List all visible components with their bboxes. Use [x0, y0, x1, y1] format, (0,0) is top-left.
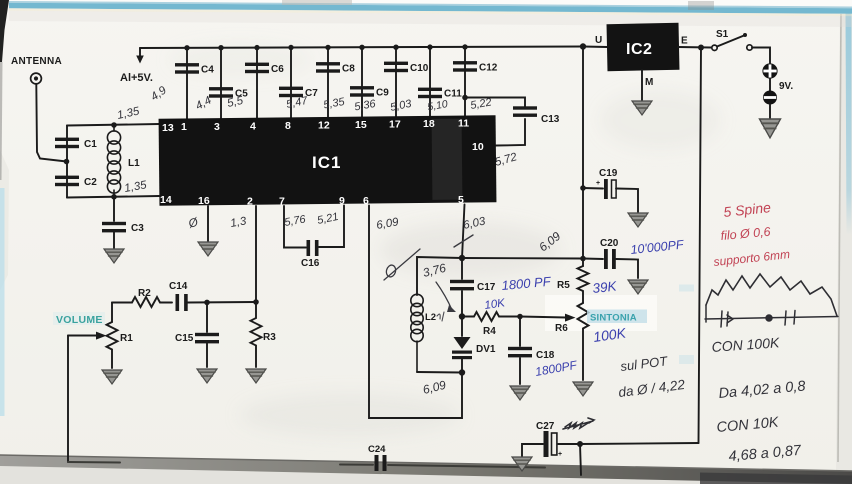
ground below C3 — [104, 249, 124, 263]
switch S1 — [712, 29, 752, 51]
node C18 branch — [517, 314, 523, 320]
svg-text:C1: C1 — [84, 139, 97, 150]
capacitor C12 — [453, 61, 498, 73]
capacitor C20 — [600, 238, 619, 269]
handwritten scribble above C27 — [563, 418, 594, 429]
ground below R3 — [246, 369, 266, 383]
svg-text:+: + — [596, 180, 600, 187]
wire top to pin 13 — [67, 124, 159, 126]
svg-text:C10: C10 — [410, 63, 429, 74]
battery negative terminal — [763, 79, 777, 105]
svg-text:39K: 39K — [592, 278, 618, 296]
svg-text:2: 2 — [247, 196, 253, 208]
handwritten phi mark left of L2 — [384, 249, 420, 280]
capacitor C8 — [316, 62, 355, 74]
svg-text:C11: C11 — [444, 89, 462, 100]
svg-text:R4: R4 — [483, 326, 496, 337]
wire pin 16 to ground — [207, 206, 209, 241]
svg-text:14: 14 — [160, 194, 172, 206]
capacitor C16 — [301, 240, 320, 269]
svg-text:ANTENNA: ANTENNA — [11, 56, 62, 67]
svg-text:C15: C15 — [175, 333, 194, 344]
wire C20 stub — [583, 259, 638, 279]
svg-text:C19: C19 — [599, 168, 618, 179]
svg-text:18: 18 — [423, 118, 435, 130]
wire bottom rail — [68, 462, 545, 468]
wire C18 branch down — [519, 317, 521, 385]
svg-text:C7: C7 — [305, 88, 318, 99]
svg-text:C18: C18 — [536, 350, 555, 361]
resistor R3 — [251, 302, 277, 367]
wire pin 7 down to C16 — [284, 206, 306, 248]
svg-text:4: 4 — [250, 121, 256, 133]
wire C27 row — [580, 443, 699, 475]
capacitor C11 — [418, 88, 462, 100]
svg-text:IC1: IC1 — [312, 153, 341, 172]
svg-text:C17: C17 — [477, 282, 496, 293]
node E branch — [698, 45, 704, 51]
wire R1 top — [111, 303, 113, 323]
svg-text:12: 12 — [318, 120, 330, 132]
audio: wire R1 top corner — [112, 302, 132, 304]
svg-text:1: 1 — [181, 121, 187, 133]
resistor R5 — [557, 266, 589, 303]
ground below IC2 M — [632, 101, 652, 115]
inductor L1 — [107, 125, 120, 197]
handwritten scribble near L2 tap — [437, 312, 444, 321]
node pin5 tank junction — [459, 255, 465, 261]
svg-text:13: 13 — [162, 122, 174, 134]
wire C15 branch — [206, 302, 208, 367]
svg-text:3: 3 — [214, 121, 220, 133]
wire bottom to pin 14 — [67, 196, 159, 198]
svg-text:DV1: DV1 — [476, 344, 496, 355]
wire IC2 M to ground — [641, 70, 643, 100]
wire rail to pin 4 — [256, 48, 258, 120]
node C20 branch — [580, 256, 586, 262]
capacitor C13 — [513, 106, 560, 125]
wire tank node to L2 top — [417, 257, 462, 295]
node L1 top — [111, 122, 117, 128]
svg-text:C3: C3 — [131, 223, 144, 234]
wire antenna to C1/C2 node — [36, 84, 66, 162]
potentiometer R6 — [555, 303, 589, 380]
capacitor C24 — [368, 444, 387, 471]
svg-text:C9: C9 — [376, 88, 389, 99]
svg-text:L2: L2 — [425, 312, 436, 323]
node L2 bottom junction — [459, 369, 465, 375]
handwritten slash on pin5 wire — [454, 235, 473, 247]
capacitor C2 — [55, 176, 97, 188]
wire volume feed down to bottom rail — [67, 336, 69, 463]
capacitor C14 — [169, 281, 188, 311]
node R4 branch — [459, 313, 465, 319]
ground below R6 — [573, 382, 593, 396]
wire R4 node to R6 wiper arrow — [520, 314, 576, 322]
svg-text:11: 11 — [458, 118, 469, 130]
capacitor C5 — [209, 87, 248, 99]
rail junction dots — [184, 44, 467, 50]
wire rail to pin 1 — [186, 48, 188, 120]
svg-text:R2: R2 — [138, 288, 151, 299]
wire tank node down through C17 — [461, 258, 463, 317]
wire rail corner to IC2 U — [583, 46, 607, 49]
svg-text:C6: C6 — [271, 64, 284, 75]
node C13 branch on pin-11 wire — [462, 95, 468, 101]
capacitor C10 — [384, 62, 429, 74]
node rail corner — [580, 43, 586, 49]
wire rail to pin 3 — [220, 48, 222, 120]
svg-text:C8: C8 — [342, 64, 355, 75]
wire rail to pin 17 — [395, 47, 397, 118]
ground below C15 — [197, 369, 217, 383]
capacitor C18 — [508, 347, 555, 361]
capacitor C6 — [245, 63, 284, 75]
wire rail to pin 18 — [429, 47, 431, 118]
svg-text:R5: R5 — [557, 280, 570, 291]
node C15 branch — [204, 300, 210, 306]
node L1 bottom — [111, 194, 117, 200]
wire L2 bottom to DV1 chain — [417, 371, 462, 374]
battery positive terminal — [762, 63, 777, 78]
svg-text:R1: R1 — [120, 333, 133, 344]
svg-text:C13: C13 — [541, 114, 560, 125]
wire pin 5 down — [462, 205, 465, 259]
svg-text:R3: R3 — [263, 332, 276, 343]
svg-text:M: M — [645, 77, 653, 88]
svg-text:9V.: 9V. — [779, 81, 793, 92]
svg-text:8: 8 — [285, 120, 291, 132]
svg-text:C27: C27 — [536, 421, 555, 432]
svg-text:S1: S1 — [716, 29, 729, 40]
wire IC2 E to switch — [678, 46, 711, 49]
ground below C20 — [628, 280, 648, 294]
wire supply column vertical — [582, 47, 584, 267]
wire C13 branch — [465, 98, 525, 146]
capacitor C27 electrolytic — [536, 421, 562, 458]
ground below C19 — [628, 213, 648, 227]
svg-text:17: 17 — [389, 119, 401, 131]
svg-text:5: 5 — [458, 194, 464, 206]
node C27 junction — [577, 441, 583, 447]
hand sketch baseline with taps — [705, 305, 838, 327]
svg-text:C24: C24 — [368, 444, 386, 455]
capacitor C19 electrolytic — [596, 168, 618, 199]
handwritten 3,76 with arrow — [421, 261, 456, 312]
wire C19 stub — [583, 188, 638, 212]
wire E branch long vertical down — [699, 48, 702, 444]
node antenna/C1/C2 junction — [64, 159, 70, 165]
R1 wiper arrow — [68, 332, 107, 340]
svg-text:U: U — [595, 35, 602, 46]
wire pin 6 down and around — [369, 206, 462, 419]
node C19 branch — [580, 185, 586, 191]
svg-text:VOLUME: VOLUME — [56, 314, 103, 326]
svg-text:SINTONIA: SINTONIA — [590, 313, 637, 324]
ground left of C27 — [512, 457, 532, 471]
capacitor C1 — [55, 138, 97, 150]
+5V supply arrow — [136, 48, 144, 64]
wire C27 left to ground — [522, 444, 580, 457]
svg-text:Al+5V.: Al+5V. — [120, 72, 153, 84]
wire +5V supply rail — [140, 47, 583, 49]
hand sketch coil humps — [706, 274, 837, 316]
inductor L2 — [411, 294, 423, 372]
capacitor C3 — [102, 222, 144, 234]
svg-text:C12: C12 — [479, 63, 498, 74]
svg-text:C4: C4 — [201, 65, 214, 76]
capacitor C9 — [350, 86, 389, 98]
wire battery to ground — [769, 105, 771, 119]
wire C3 to ground — [113, 232, 115, 248]
wire rail to pin 15 — [361, 47, 363, 118]
antenna terminal symbol — [31, 73, 42, 84]
wire C14 to pin2 node — [188, 301, 256, 304]
svg-text:10: 10 — [472, 141, 484, 153]
wire L1 bottom to C3 — [113, 197, 115, 221]
svg-text:C16: C16 — [301, 258, 320, 269]
svg-text:C20: C20 — [600, 238, 619, 249]
svg-text:C14: C14 — [169, 281, 188, 292]
IC U1 body IC1 — [159, 115, 497, 206]
svg-text:R6: R6 — [555, 323, 568, 334]
svg-text:+: + — [558, 451, 562, 458]
ground below C18 — [510, 386, 530, 400]
resistor R4 — [462, 312, 520, 337]
svg-text:E: E — [681, 36, 688, 47]
capacitor C15 — [175, 333, 219, 344]
svg-text:L1: L1 — [128, 158, 140, 169]
svg-text:IC2: IC2 — [626, 41, 652, 58]
wire switch to battery — [752, 48, 770, 64]
wire C1 branch vertical — [66, 126, 68, 198]
svg-text:15: 15 — [355, 119, 367, 131]
capacitor C7 — [279, 87, 318, 99]
potentiometer R1 — [107, 322, 134, 368]
svg-text:C2: C2 — [84, 177, 97, 188]
wire rail to pin 8 — [290, 48, 292, 120]
wire rail to pin 11 — [464, 47, 466, 118]
ground below R1 — [102, 370, 122, 384]
node pin2/R3 — [253, 299, 259, 305]
capacitor C4 — [175, 63, 214, 75]
resistor R2 — [132, 288, 172, 307]
voltage regulator IC2 — [607, 23, 680, 71]
wire pin 9 down to C16 — [319, 206, 344, 248]
capacitor C17 — [450, 280, 496, 293]
varactor diode DV1 — [452, 317, 496, 373]
wire tank node to supply column — [462, 257, 583, 260]
wire rail to pin 12 — [327, 47, 329, 118]
ground below battery — [760, 119, 781, 138]
wire pin 2 down — [255, 206, 257, 302]
ground below pin 16 — [198, 242, 218, 256]
